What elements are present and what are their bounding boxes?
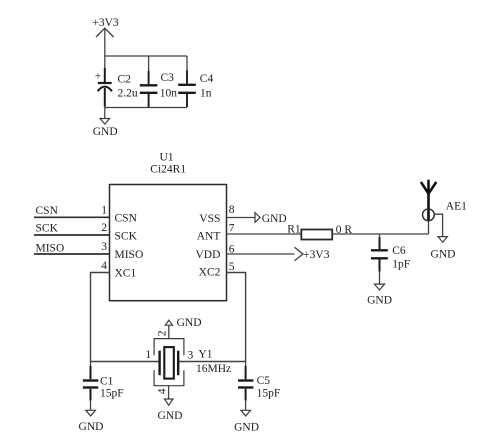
ground (C1): [79, 410, 104, 433]
svg-text:XC1: XC1: [115, 267, 137, 279]
capacitor C3 (10n): [140, 56, 178, 107]
svg-text:C1: C1: [100, 376, 114, 388]
svg-text:C6: C6: [392, 245, 406, 257]
svg-text:4: 4: [156, 388, 168, 394]
capacitor C2 (polarized 2.2u): [95, 56, 138, 108]
svg-text:1: 1: [146, 349, 152, 361]
svg-text:3: 3: [188, 349, 194, 361]
svg-text:AE1: AE1: [446, 201, 467, 213]
svg-text:Y1: Y1: [198, 348, 212, 360]
svg-text:CSN: CSN: [36, 205, 59, 217]
svg-text:SCK: SCK: [36, 223, 59, 235]
svg-text:10n: 10n: [160, 88, 178, 100]
svg-text:1pF: 1pF: [392, 258, 410, 270]
IC U1 Ci24R1 body: [110, 152, 227, 301]
pin 6 VDD wire + +3V3 arrow: [195, 243, 329, 260]
svg-text:7: 7: [229, 222, 235, 234]
svg-text:16MHz: 16MHz: [196, 363, 231, 375]
capacitor C5 (15pF): [238, 362, 280, 411]
svg-text:GND: GND: [262, 213, 287, 225]
svg-text:ANT: ANT: [197, 231, 221, 243]
svg-text:Ci24R1: Ci24R1: [150, 164, 186, 176]
svg-text:VDD: VDD: [195, 249, 220, 261]
crystal Y1 16MHz: [146, 330, 232, 394]
svg-text:+: +: [95, 71, 102, 83]
capacitor C4 (1n): [178, 56, 213, 107]
ground (C6): [367, 284, 392, 306]
power flag +3V3 (top left): [92, 17, 119, 56]
svg-text:6: 6: [229, 243, 235, 255]
wire antenna stem to ANT wire: [428, 221, 430, 234]
svg-text:+3V3: +3V3: [92, 17, 119, 29]
pin 8 VSS wire + GND arrow: [199, 204, 286, 225]
capacitor C6 (1pF): [371, 234, 410, 284]
svg-text:3: 3: [101, 241, 107, 253]
svg-text:8: 8: [229, 204, 235, 216]
svg-text:GND: GND: [93, 126, 118, 138]
svg-text:GND: GND: [177, 317, 202, 329]
ground (below C2): [93, 108, 118, 139]
antenna AE1: [421, 180, 467, 222]
pin 2 wire to top GND: [168, 325, 170, 338]
svg-text:GND: GND: [234, 422, 259, 434]
svg-text:C2: C2: [118, 73, 132, 85]
svg-text:GND: GND: [158, 410, 183, 422]
svg-text:GND: GND: [79, 421, 104, 433]
pin 4 XC1 wire: [91, 260, 137, 362]
pin 7 ANT wire: [197, 222, 302, 242]
ground (crystal top, up arrow): [165, 317, 201, 329]
pin 5 XC2 wire: [199, 261, 246, 362]
wire top rail: [105, 55, 187, 57]
svg-text:2: 2: [157, 330, 169, 336]
node CSN (net label + wire), pin 1: [34, 205, 138, 225]
svg-text:1n: 1n: [200, 88, 212, 100]
wire antenna to GND branch: [434, 214, 442, 236]
svg-text:15pF: 15pF: [100, 387, 124, 399]
svg-text:C4: C4: [200, 73, 214, 85]
ground (C5): [234, 410, 259, 433]
svg-text:MISO: MISO: [115, 249, 144, 261]
wire crystal row right: [179, 361, 245, 363]
svg-text:GND: GND: [431, 249, 456, 261]
svg-text:1: 1: [101, 205, 107, 217]
wire ANT to antenna: [332, 233, 428, 235]
ground (antenna): [431, 237, 456, 261]
svg-text:2: 2: [101, 222, 107, 234]
svg-text:C3: C3: [161, 72, 175, 84]
svg-text:SCK: SCK: [115, 230, 138, 242]
svg-text:4: 4: [101, 260, 107, 272]
svg-text:U1: U1: [159, 152, 173, 164]
svg-text:5: 5: [229, 261, 235, 273]
node MISO (net label + wire), pin 3: [34, 241, 143, 261]
capacitor C1 (15pF): [83, 362, 124, 411]
svg-text:R1: R1: [287, 224, 301, 236]
svg-text:VSS: VSS: [199, 213, 220, 225]
svg-text:C5: C5: [257, 375, 271, 387]
wire bottom rail: [105, 107, 187, 109]
svg-text:15pF: 15pF: [257, 387, 281, 399]
pin 4 wire to bottom GND: [168, 386, 170, 399]
svg-text:MISO: MISO: [36, 243, 65, 255]
wire crystal row left: [91, 361, 159, 363]
node SCK (net label + wire), pin 2: [34, 222, 138, 242]
svg-text:XC2: XC2: [199, 267, 221, 279]
svg-text:+3V3: +3V3: [303, 249, 330, 261]
svg-text:2.2u: 2.2u: [118, 87, 138, 99]
resistor R1 0 R: [287, 224, 352, 240]
ground (crystal bottom): [158, 399, 183, 422]
svg-text:GND: GND: [367, 294, 392, 306]
svg-text:CSN: CSN: [115, 212, 138, 224]
